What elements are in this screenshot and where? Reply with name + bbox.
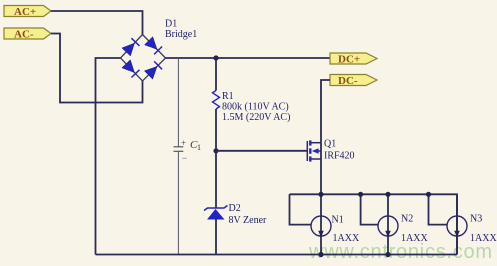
svg-text:1AXX: 1AXX xyxy=(470,233,497,244)
resistor R1 xyxy=(213,58,220,151)
port DC- xyxy=(330,75,377,88)
label R1 values xyxy=(222,91,290,123)
wire AC+ to bridge top vertex xyxy=(51,11,143,35)
svg-text:800k (110V AC): 800k (110V AC) xyxy=(222,102,289,113)
wire R1 junction down to D2 xyxy=(215,151,217,208)
label D2 8V Zener xyxy=(229,203,268,226)
svg-text:1AXX: 1AXX xyxy=(401,233,428,244)
svg-text:8V Zener: 8V Zener xyxy=(229,215,268,226)
node N1 top junction xyxy=(318,192,323,197)
node junction R1 top on DC+ rail xyxy=(213,55,218,60)
svg-text:1: 1 xyxy=(197,143,201,152)
lamp N3 xyxy=(429,194,468,254)
label N3 1AXX xyxy=(470,214,497,245)
capacitor C1 xyxy=(174,58,202,255)
svg-text:−: − xyxy=(182,153,187,163)
svg-text:N1: N1 xyxy=(332,215,344,226)
diode D1d bottom-right xyxy=(144,61,162,79)
svg-text:N2: N2 xyxy=(401,214,413,225)
svg-text:DC+: DC+ xyxy=(338,54,360,66)
node N2 bottom junction xyxy=(385,252,390,257)
svg-text:1.5M (220V AC): 1.5M (220V AC) xyxy=(222,112,290,123)
wire DC+ rail (bridge right vertex to DC+ port) xyxy=(166,57,331,59)
diode D1b top-right xyxy=(145,37,163,55)
svg-text:Q1: Q1 xyxy=(324,139,336,150)
label Q1 IRF420 xyxy=(324,139,355,162)
svg-text:AC-: AC- xyxy=(14,29,34,41)
wire DC- port to Q1 drain xyxy=(321,80,330,143)
transistor Q1 (IRF420 MOSFET) xyxy=(307,140,321,194)
wire bridge left vertex to bottom rail xyxy=(96,58,121,255)
svg-text:www.cntronics.com: www.cntronics.com xyxy=(308,241,492,263)
svg-text:Bridge1: Bridge1 xyxy=(165,29,197,40)
svg-text:IRF420: IRF420 xyxy=(324,151,355,162)
port DC+ xyxy=(330,53,377,66)
svg-text:DC-: DC- xyxy=(338,75,358,87)
port AC+ xyxy=(4,6,51,19)
zener diode D2 xyxy=(204,206,228,255)
svg-text:1AXX: 1AXX xyxy=(333,233,360,244)
wire bottom rail xyxy=(96,254,458,256)
svg-text:AC+: AC+ xyxy=(14,6,36,18)
svg-text:+: + xyxy=(181,138,186,148)
svg-text:D1: D1 xyxy=(165,19,177,30)
wire AC- to bridge bottom vertex xyxy=(51,34,143,103)
node gate junction xyxy=(213,148,218,153)
label N2 1AXX xyxy=(401,214,428,245)
svg-text:D2: D2 xyxy=(229,203,241,214)
diode D1c bottom-left xyxy=(122,60,140,78)
label N1 1AXX xyxy=(332,215,360,245)
svg-text:N3: N3 xyxy=(470,214,482,225)
diode D1a top-left xyxy=(122,38,140,56)
lamp N1 xyxy=(290,194,332,254)
node N2 bracket junction xyxy=(358,192,363,197)
node N2 top junction xyxy=(385,192,390,197)
bridge rectifier D1 xyxy=(121,35,166,82)
wire gate junction to Q1 gate xyxy=(216,150,307,152)
node N1 bottom junction xyxy=(318,252,323,257)
wire lamp top rail xyxy=(290,194,458,254)
node N3 bracket junction xyxy=(426,192,431,197)
label D1 Bridge1 xyxy=(165,19,197,41)
svg-text:R1: R1 xyxy=(222,91,234,102)
lamp N2 xyxy=(361,194,398,254)
port AC- xyxy=(4,28,51,41)
